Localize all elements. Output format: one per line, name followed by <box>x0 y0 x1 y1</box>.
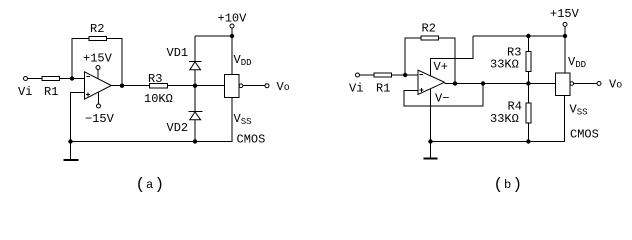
wire divider node to R4 <box>527 84 529 103</box>
svg-text:R2: R2 <box>90 22 104 36</box>
svg-text:33KΩ: 33KΩ <box>490 58 519 72</box>
wire VD2 to bottom rail <box>194 120 196 142</box>
wire rail down to VD1 <box>194 36 196 61</box>
op-amp U1 minus sign <box>87 76 91 78</box>
wire noninverting input to ground rail <box>71 93 85 142</box>
svg-text:33KΩ: 33KΩ <box>490 112 519 126</box>
op-amp U3 minus sign <box>420 73 424 75</box>
node divider junction dot <box>526 81 530 85</box>
op-amp U3 plus sign <box>420 89 424 91</box>
svg-text:CMOS: CMOS <box>237 133 266 147</box>
op-amp U1 positive supply pin <box>97 70 99 79</box>
op-amp U3 V- supply pin wire to ground rail <box>430 89 432 142</box>
wire CMOS output to Vo <box>574 83 597 85</box>
wire Vi to R1 <box>360 74 375 76</box>
svg-text:R2: R2 <box>422 22 436 36</box>
node diode clamp junction dot <box>193 84 197 88</box>
wire VD1 to node <box>194 70 196 86</box>
op-amp U3 <box>418 70 445 94</box>
svg-text:R3: R3 <box>148 72 162 86</box>
wire R2 left leg <box>405 38 421 75</box>
wire bottom rail (b) <box>431 96 565 142</box>
wire R2 left leg <box>72 39 89 79</box>
CMOS gate U4 <box>556 73 571 96</box>
wire op-amp output <box>111 85 149 87</box>
node VD2 rail junction dot <box>193 139 197 143</box>
svg-text:V−: V− <box>435 92 449 106</box>
wire R1 to inverting input <box>60 78 85 80</box>
wire op-amp output to CMOS input <box>445 83 556 85</box>
op-amp U1 <box>85 72 112 99</box>
node feedback loop junction dot <box>481 81 485 85</box>
svg-text:(a): (a) <box>136 176 165 194</box>
output terminal Vo <box>265 84 269 88</box>
wire R3 to CMOS input <box>167 85 224 87</box>
wire +15V down to CMOS VDD <box>564 26 566 73</box>
svg-text:−15V: −15V <box>85 112 115 126</box>
node +15V rail junction dot at terminal <box>563 34 567 38</box>
node R2 output junction dot <box>453 81 457 85</box>
input terminal Vi <box>24 77 28 81</box>
op-amp U3 V+ supply pin wire <box>431 36 473 76</box>
wire +15V rail <box>473 35 565 37</box>
wire R2 right leg <box>438 38 455 84</box>
svg-text:+15V: +15V <box>550 7 580 21</box>
wire R4 to bottom rail <box>527 123 529 141</box>
svg-text:10KΩ: 10KΩ <box>144 92 173 106</box>
resistor R1 <box>42 77 60 81</box>
CMOS gate U2 <box>225 75 240 98</box>
node +10V rail junction dot <box>230 34 234 38</box>
node ground junction dot <box>68 139 72 143</box>
svg-text:Vo: Vo <box>609 78 622 92</box>
svg-text:V+: V+ <box>434 60 448 74</box>
wire node to VD2 <box>194 86 196 112</box>
wire +10V down to CMOS VDD <box>231 28 233 75</box>
power terminal +15V <box>563 22 567 26</box>
resistor R2 <box>89 36 107 40</box>
wire Vi to R1 <box>28 78 43 80</box>
diode VD2 <box>189 110 203 112</box>
output terminal Vo <box>597 82 601 86</box>
resistor R1 <box>374 73 392 77</box>
svg-text:VSS: VSS <box>570 103 588 118</box>
ground <box>430 142 432 159</box>
resistor R2 <box>421 36 438 40</box>
svg-text:+10V: +10V <box>218 12 248 26</box>
resistor R4 <box>526 103 531 123</box>
op-amp U1 negative supply pin <box>98 92 100 104</box>
resistor R3 <box>149 84 167 88</box>
ground <box>70 142 72 161</box>
svg-text:Vi: Vi <box>349 82 363 96</box>
svg-text:Vo: Vo <box>277 80 290 94</box>
wire noninverting input positive feedback loop <box>404 84 483 106</box>
svg-text:VD1: VD1 <box>167 46 189 60</box>
op-amp U1 plus sign <box>86 94 90 96</box>
svg-text:VD2: VD2 <box>167 121 189 135</box>
wire +10V rail <box>195 35 232 37</box>
svg-text:R1: R1 <box>376 82 390 96</box>
CMOS gate U2 output bubble <box>239 84 243 88</box>
wire rail to R3 <box>527 36 529 51</box>
svg-text:VSS: VSS <box>234 112 252 127</box>
node output feedback junction dot <box>120 84 124 88</box>
svg-text:VDD: VDD <box>234 53 252 68</box>
svg-text:VDD: VDD <box>568 55 586 70</box>
svg-text:R1: R1 <box>44 85 58 99</box>
wire R3 to divider node <box>527 71 529 83</box>
svg-text:CMOS: CMOS <box>570 128 599 142</box>
CMOS gate U4 output bubble <box>570 82 574 86</box>
node A junction dot <box>70 76 74 80</box>
wire CMOS output to Vo <box>243 85 265 87</box>
wire bottom rail (a) <box>71 98 233 142</box>
node +15V rail junction dot at R3 <box>526 34 530 38</box>
node R4 rail junction dot <box>526 139 530 143</box>
svg-text:+15V: +15V <box>83 52 113 66</box>
wire R1 to inverting input <box>392 74 419 76</box>
svg-text:(b): (b) <box>494 176 523 194</box>
node ground junction dot <box>428 139 432 143</box>
input terminal Vi <box>356 73 360 77</box>
resistor R3 <box>526 51 531 71</box>
power terminal +10V <box>230 24 234 28</box>
node B junction dot <box>403 73 407 77</box>
diode VD1 <box>189 60 202 62</box>
svg-text:Vi: Vi <box>18 85 32 99</box>
wire R2 right leg <box>107 39 123 86</box>
